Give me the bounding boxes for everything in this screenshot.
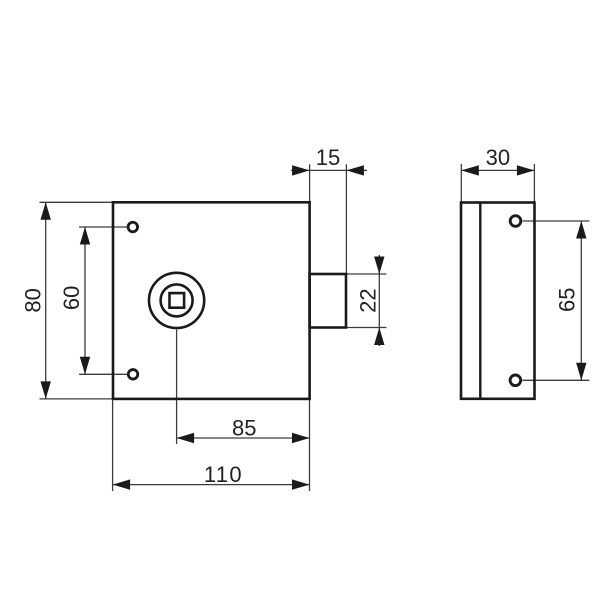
svg-text:15: 15 bbox=[316, 145, 340, 170]
svg-text:60: 60 bbox=[59, 286, 84, 310]
svg-text:80: 80 bbox=[20, 288, 45, 312]
svg-text:85: 85 bbox=[232, 416, 256, 441]
svg-text:65: 65 bbox=[555, 287, 580, 311]
svg-text:22: 22 bbox=[356, 288, 381, 312]
svg-text:30: 30 bbox=[486, 145, 510, 170]
svg-text:110: 110 bbox=[204, 462, 243, 487]
